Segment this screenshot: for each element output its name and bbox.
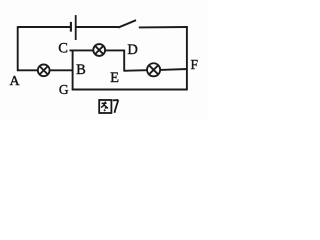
svg-text:D: D	[127, 42, 137, 58]
svg-text:B: B	[76, 62, 86, 78]
switch S (open blade)	[118, 20, 136, 27]
wire E to lamp L3	[124, 69, 148, 72]
svg-text:C: C	[58, 40, 68, 56]
battery cell (short negative plate)	[70, 22, 72, 32]
caption glyph 7 (drawn)	[113, 100, 119, 113]
svg-text:F: F	[191, 57, 199, 72]
battery cell (long positive plate)	[75, 15, 77, 40]
wire lamp L1 to node B	[50, 69, 74, 71]
lamp L2 (between C and D)	[93, 44, 105, 56]
wire left vertical	[17, 26, 19, 71]
wire lamp L3 to node F	[160, 68, 188, 71]
wire switch-to-corner segment	[139, 26, 188, 28]
svg-text:G: G	[59, 82, 69, 97]
wire C to lamp L2	[70, 49, 94, 51]
wire node B vertical (C to G)	[72, 50, 74, 91]
wire D vertical down to E	[123, 50, 125, 72]
caption glyph 图 (drawn)	[99, 100, 111, 113]
svg-text:A: A	[9, 74, 20, 89]
wire top-left segment	[18, 26, 70, 28]
wire lamp L2 to corner D	[105, 49, 125, 51]
svg-text:E: E	[110, 70, 119, 86]
wire A to lamp L1	[17, 69, 38, 71]
wire bottom (G to right vertical)	[72, 89, 188, 91]
lamp L1 (between A and B)	[38, 64, 50, 76]
wire battery-to-switch segment	[76, 26, 118, 28]
lamp L3 (between E and F)	[147, 63, 160, 76]
wire right vertical	[186, 26, 188, 90]
